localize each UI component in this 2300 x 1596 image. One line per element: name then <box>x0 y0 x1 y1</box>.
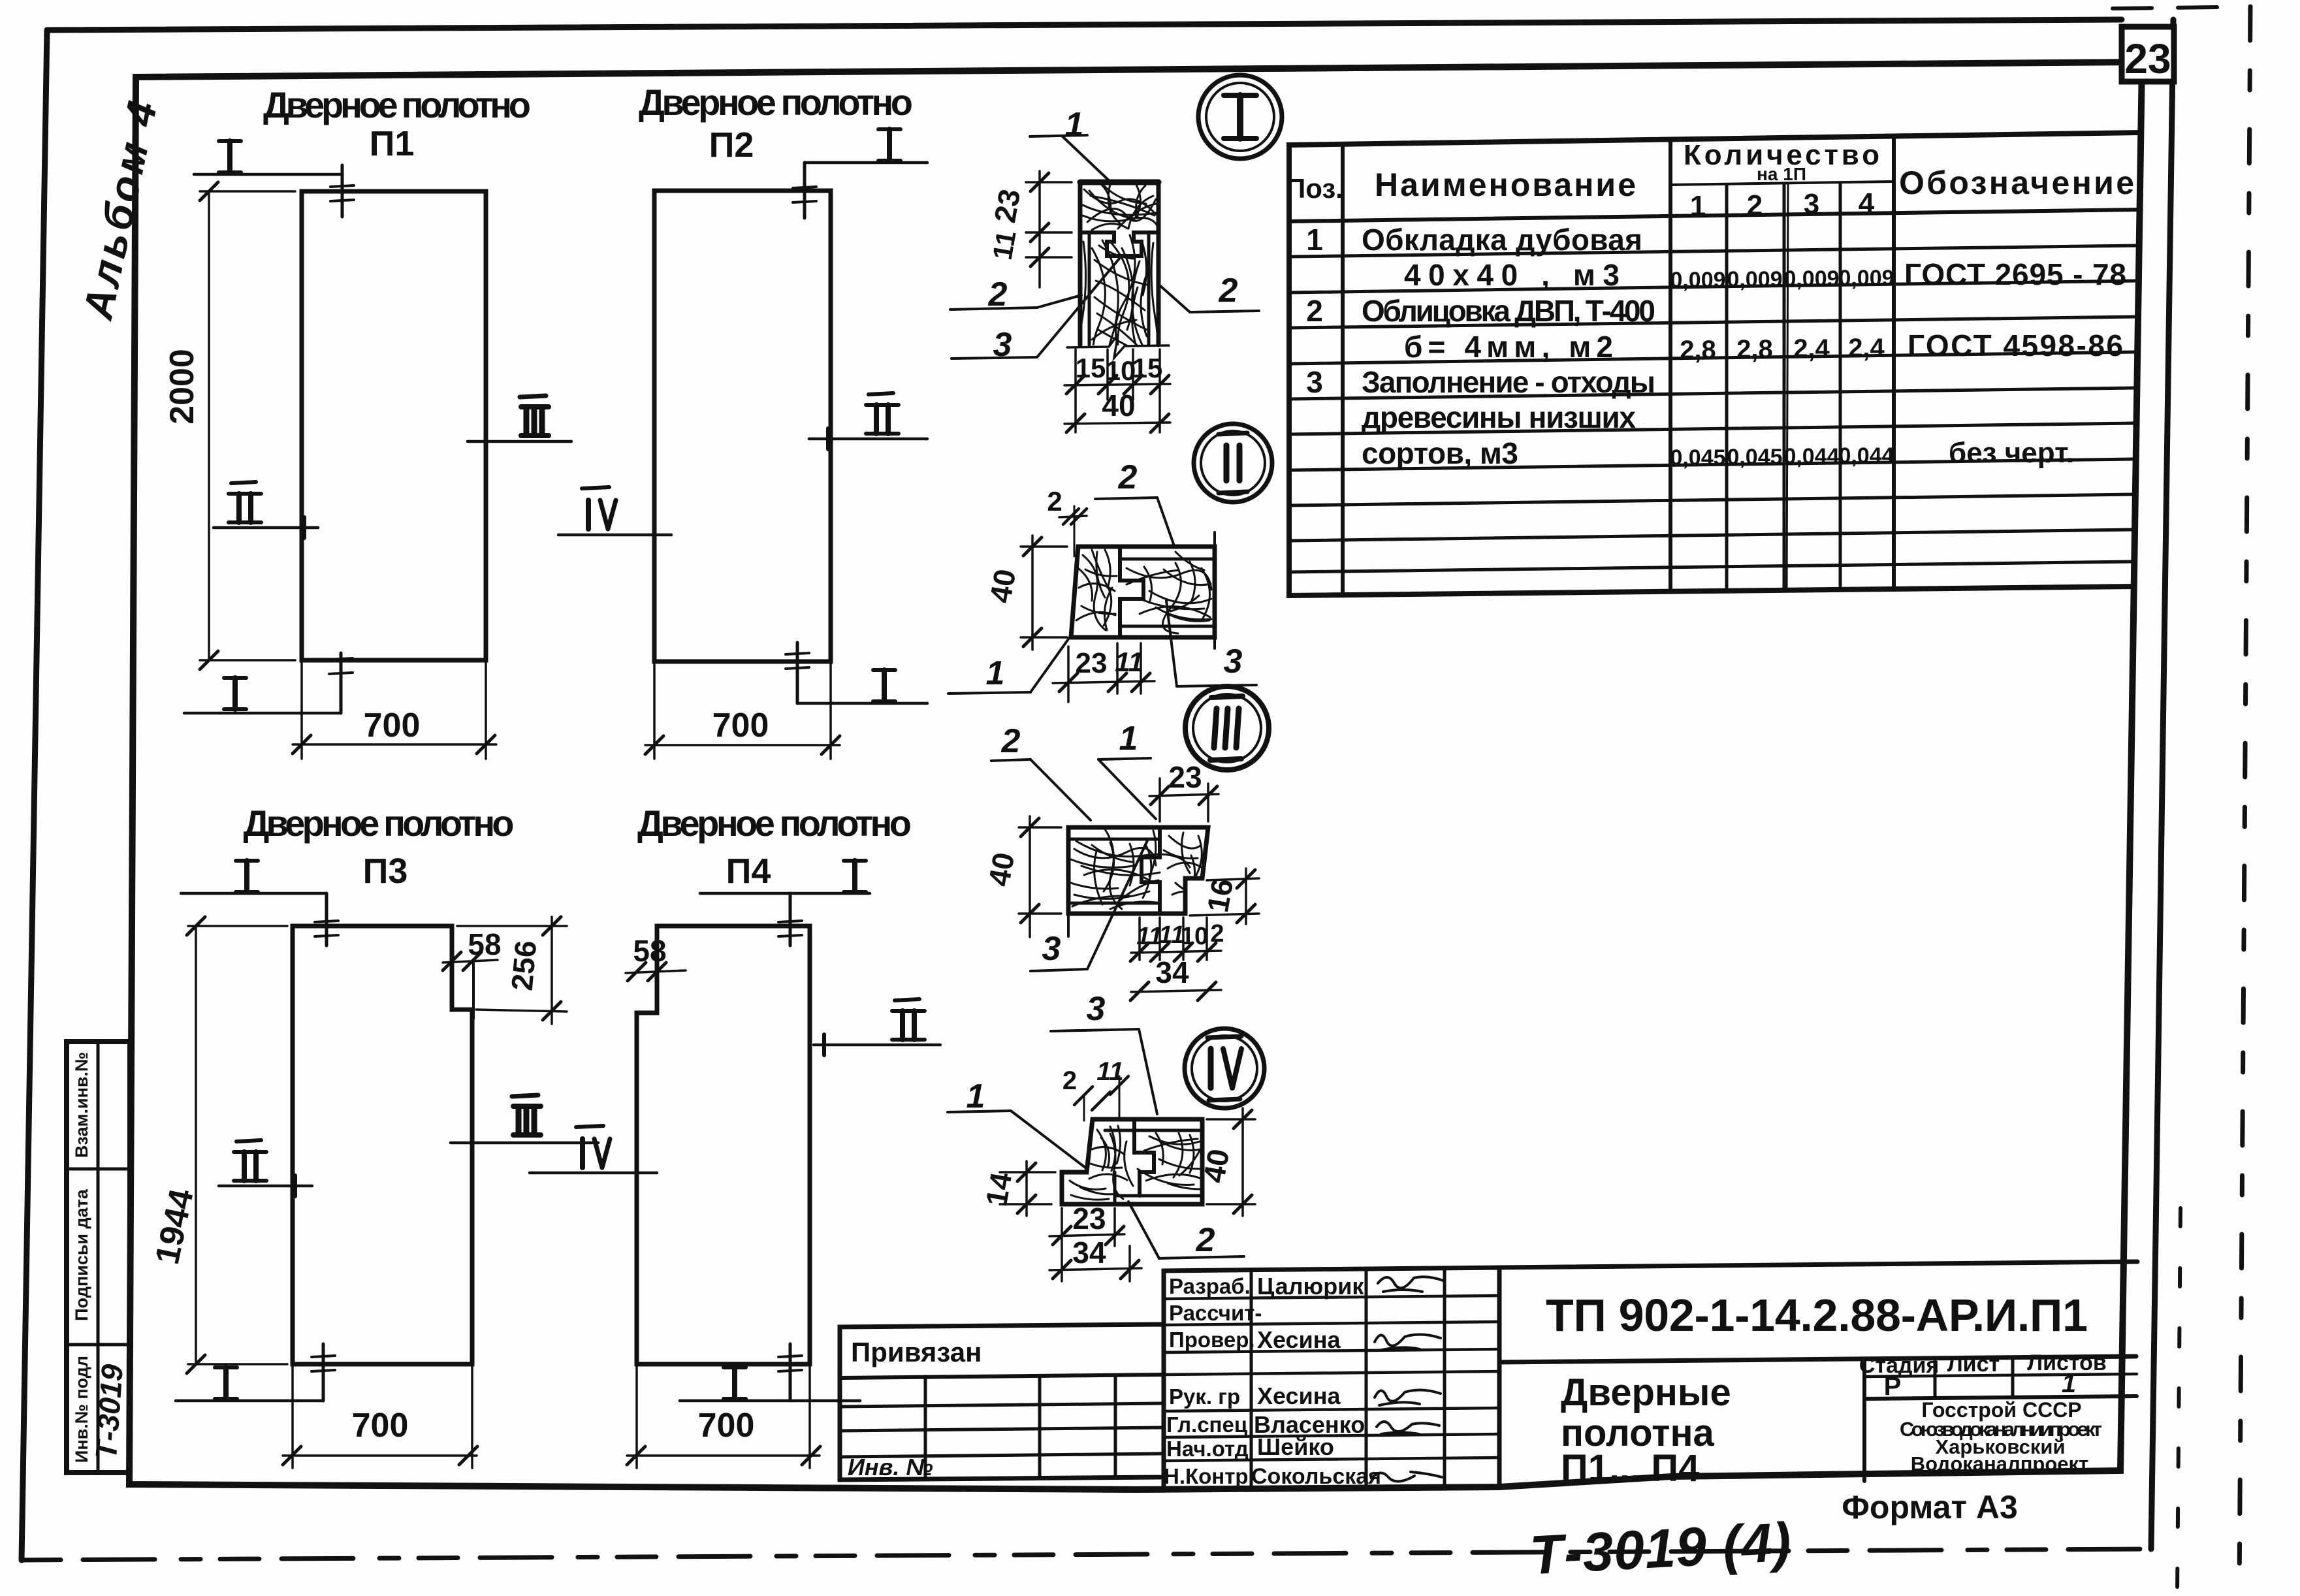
detail I bottom break line <box>1067 334 1169 358</box>
section I marker top P2 <box>805 161 927 165</box>
svg-text:Наименование: Наименование <box>1375 167 1636 203</box>
privyazan header line <box>840 1375 1164 1378</box>
svg-text:4: 4 <box>1859 187 1875 219</box>
fold dashes right lower <box>2177 1208 2180 1593</box>
svg-text:Шейко: Шейко <box>1257 1433 1334 1460</box>
dim 1944 <box>195 926 197 1364</box>
dim 700 P4 <box>635 1364 638 1468</box>
dim 700 P3 <box>291 1364 294 1468</box>
svg-text:0,009: 0,009 <box>1783 266 1839 291</box>
svg-text:Рук. гр: Рук. гр <box>1169 1384 1240 1409</box>
svg-text:Дверное полотно: Дверное полотно <box>244 803 515 844</box>
detail II facing strips <box>1120 558 1215 561</box>
section I marker bottom P1 <box>184 712 341 715</box>
svg-text:2: 2 <box>1306 294 1323 328</box>
left stamp divider vertical <box>97 1042 100 1473</box>
detail III left edge extension <box>1067 914 1070 936</box>
dim 2000 vertical line <box>208 191 210 660</box>
svg-text:40: 40 <box>982 850 1021 889</box>
svg-text:Подписьи дата: Подписьи дата <box>72 1189 91 1321</box>
signatures <box>1378 1277 1443 1292</box>
detail IV dim 14 left <box>1000 1171 1055 1173</box>
detail I wood grain lower filler <box>1079 235 1158 427</box>
detail I dims 15 10 15 40 bottom <box>1074 349 1077 432</box>
detail I wood grain top block <box>1083 184 1157 230</box>
door P2 rectangle <box>654 191 831 662</box>
svg-text:Разраб.: Разраб. <box>1169 1274 1251 1298</box>
svg-text:ГОСТ 2695 - 78: ГОСТ 2695 - 78 <box>1904 257 2126 291</box>
svg-text:Обозначение: Обозначение <box>1899 165 2134 201</box>
svg-text:16: 16 <box>1200 876 1239 915</box>
svg-text:Хесина: Хесина <box>1257 1382 1341 1409</box>
svg-text:1: 1 <box>966 1077 985 1115</box>
svg-text:1: 1 <box>2062 1369 2076 1398</box>
svg-text:Заполнение - отходы: Заполнение - отходы <box>1362 365 1655 399</box>
personnel block outer <box>1164 1268 1499 1490</box>
detail IV outline <box>1062 1119 1202 1204</box>
section II marker P3 <box>219 1185 312 1188</box>
svg-text:3: 3 <box>1224 643 1243 680</box>
svg-text:3: 3 <box>1042 930 1061 968</box>
detail III dim 40 left <box>1019 826 1061 829</box>
svg-text:700: 700 <box>698 1407 755 1444</box>
personnel rows <box>1164 1296 1499 1299</box>
svg-text:15: 15 <box>1132 353 1163 383</box>
svg-text:П1... П4: П1... П4 <box>1561 1447 1699 1490</box>
svg-text:Инв.№ подл: Инв.№ подл <box>72 1356 91 1463</box>
detail III oak profile <box>1142 827 1160 914</box>
subcol dividers 1-4 <box>1725 185 1729 591</box>
section II marker P2 <box>809 438 927 441</box>
section III marker P1 (bold) <box>468 440 571 443</box>
svg-text:23: 23 <box>2124 35 2171 82</box>
svg-text:Нач.отд: Нач.отд <box>1166 1437 1249 1461</box>
detail III outline <box>1068 827 1208 914</box>
detail I groove profile <box>1080 232 1158 256</box>
section I marker bottom P3 <box>176 1399 323 1403</box>
svg-text:0,009: 0,009 <box>1838 266 1894 291</box>
svg-text:0,045: 0,045 <box>1727 445 1782 470</box>
svg-text:10: 10 <box>1181 923 1208 950</box>
detail IV oak profile <box>1134 1119 1154 1196</box>
svg-text:Хесина: Хесина <box>1257 1326 1341 1353</box>
col Naimenovanie divider <box>1669 140 1672 592</box>
detail IV dims 23 34 bottom <box>1061 1208 1063 1281</box>
svg-text:П3: П3 <box>363 852 408 891</box>
svg-text:на 1П: на 1П <box>1757 164 1806 184</box>
svg-text:Дверные: Дверные <box>1561 1371 1731 1414</box>
top right dashes <box>2113 7 2220 8</box>
svg-text:Т-3019: Т-3019 <box>89 1363 129 1460</box>
privyazan table outer <box>840 1324 1164 1480</box>
dim 700 P1 <box>300 660 303 759</box>
svg-text:3: 3 <box>1087 990 1106 1028</box>
svg-text:23: 23 <box>1168 760 1202 794</box>
left stamp divider 2 <box>67 1343 130 1347</box>
svg-text:256: 256 <box>505 939 543 992</box>
svg-text:0,044: 0,044 <box>1838 443 1894 468</box>
svg-text:б= 4мм, м2: б= 4мм, м2 <box>1404 330 1613 364</box>
privyazan verticals <box>924 1377 927 1478</box>
detail III dim 16 right <box>1207 878 1259 880</box>
svg-text:2: 2 <box>1219 272 1238 310</box>
svg-text:23: 23 <box>1076 647 1108 679</box>
svg-text:40х40 , м3: 40х40 , м3 <box>1404 258 1620 292</box>
table outer <box>1289 133 2141 596</box>
col Poz divider <box>1341 144 1345 595</box>
dim 256 P3 notch <box>457 925 567 927</box>
svg-text:2,4: 2,4 <box>1793 334 1830 363</box>
svg-text:Лист: Лист <box>1947 1352 2000 1377</box>
svg-text:Поз.: Поз. <box>1286 173 1343 204</box>
stadia block <box>1862 1359 1866 1481</box>
svg-text:Сокольская: Сокольская <box>1251 1464 1381 1489</box>
svg-text:Обкладка дубовая: Обкладка дубовая <box>1362 223 1642 257</box>
section IV marker P3/P4 <box>530 1172 657 1175</box>
door P3 outline with notch <box>293 926 472 1364</box>
svg-text:40: 40 <box>1196 1147 1236 1185</box>
svg-text:23: 23 <box>1072 1202 1106 1236</box>
svg-text:700: 700 <box>352 1407 409 1444</box>
svg-text:700: 700 <box>712 707 769 744</box>
svg-text:Дверное полотно: Дверное полотно <box>263 84 531 125</box>
svg-text:1: 1 <box>1306 223 1323 257</box>
svg-text:П4: П4 <box>726 852 771 891</box>
svg-text:ГОСТ 4598-86: ГОСТ 4598-86 <box>1908 328 2123 362</box>
page number box <box>2122 27 2174 82</box>
svg-text:2: 2 <box>1210 920 1224 948</box>
svg-text:1: 1 <box>1065 106 1084 144</box>
detail II oak grain <box>1076 550 1117 630</box>
svg-text:Формат А3: Формат А3 <box>1842 1489 2018 1525</box>
door P1 rectangle <box>302 191 486 660</box>
svg-text:Дверное полотно: Дверное полотно <box>639 82 913 123</box>
document number cell <box>1499 1262 2137 1268</box>
svg-text:Н.Контр.: Н.Контр. <box>1164 1464 1254 1488</box>
detail II oak profile <box>1120 547 1143 637</box>
svg-text:2: 2 <box>1001 722 1021 760</box>
detail I dim 23/11 left <box>1026 181 1072 184</box>
svg-text:сортов, м3: сортов, м3 <box>1362 436 1518 470</box>
fold dashed line far right <box>2239 7 2250 1593</box>
circle label II <box>1194 424 1272 502</box>
svg-text:2: 2 <box>1047 486 1062 517</box>
detail II dim 40 <box>1021 545 1067 548</box>
detail III dim 34 <box>1131 990 1221 992</box>
svg-text:2: 2 <box>1196 1221 1215 1259</box>
svg-text:Облицовка ДВП, Т-400: Облицовка ДВП, Т-400 <box>1362 294 1655 328</box>
detail II outline <box>1071 547 1215 637</box>
svg-text:0,009: 0,009 <box>1670 268 1725 293</box>
svg-text:П1: П1 <box>370 124 415 163</box>
detail III facing strips <box>1068 838 1160 841</box>
svg-text:Привязан: Привязан <box>851 1337 982 1367</box>
detail IV oak grain <box>1089 1126 1127 1180</box>
svg-text:15: 15 <box>1076 353 1106 383</box>
svg-text:Цалюрик: Цалюрик <box>1257 1273 1364 1300</box>
svg-text:11: 11 <box>1115 646 1143 677</box>
svg-text:2: 2 <box>1747 189 1763 221</box>
svg-text:2: 2 <box>1062 1066 1077 1095</box>
svg-text:0,045: 0,045 <box>1670 445 1725 470</box>
svg-text:древесины низших: древесины низших <box>1362 400 1636 434</box>
detail III dim 23 top <box>1158 778 1161 822</box>
left stamp column box <box>67 1042 130 1473</box>
detail III filler grain <box>1071 842 1158 904</box>
section I marker bottom P2 <box>797 702 927 705</box>
outer border right <box>2151 20 2173 1549</box>
svg-text:3: 3 <box>1804 188 1819 220</box>
section I marker top P4 <box>700 892 870 895</box>
svg-text:без черт.: без черт. <box>1949 437 2074 469</box>
circle label III <box>1185 686 1269 770</box>
subheader line <box>1670 182 1894 185</box>
detail I grain outer strips <box>1079 242 1158 392</box>
row lines <box>1289 246 2139 257</box>
detail II dims 23 11 bottom <box>1067 646 1070 702</box>
svg-text:ТП 902-1-14.2.88-АР.И.П1: ТП 902-1-14.2.88-АР.И.П1 <box>1546 1290 2088 1341</box>
svg-text:Провер.: Провер. <box>1169 1328 1255 1352</box>
svg-text:Дверное полотно: Дверное полотно <box>637 803 912 844</box>
svg-text:40: 40 <box>1102 389 1135 423</box>
detail I top block <box>1080 180 1158 185</box>
svg-text:23: 23 <box>987 187 1027 225</box>
svg-text:58: 58 <box>633 934 666 968</box>
section I marker top P1 <box>194 173 342 176</box>
svg-text:2000: 2000 <box>163 349 201 424</box>
svg-text:Р: Р <box>1884 1372 1902 1401</box>
svg-text:Рассчит-: Рассчит- <box>1169 1301 1262 1325</box>
svg-text:10: 10 <box>1106 355 1136 386</box>
svg-text:Инв. №: Инв. № <box>848 1454 933 1480</box>
svg-text:1: 1 <box>986 654 1005 692</box>
detail I facing strips verticals <box>1088 232 1091 345</box>
detail IV facing strips <box>1105 1129 1202 1132</box>
section I marker bottom P4 <box>680 1399 860 1403</box>
detail IV ledge grain <box>1070 1181 1109 1200</box>
detail III dims 11 11 10 2 bottom <box>1138 918 1141 960</box>
section II marker P1 <box>214 526 318 530</box>
personnel verticals <box>1250 1270 1253 1489</box>
svg-text:14: 14 <box>979 1170 1018 1209</box>
svg-text:1: 1 <box>1119 720 1138 758</box>
col Kolichestvo right divider <box>1892 137 1896 589</box>
svg-text:0,044: 0,044 <box>1783 444 1839 469</box>
detail IV dim 40 right <box>1207 1118 1255 1121</box>
svg-text:2,4: 2,4 <box>1848 334 1885 362</box>
svg-text:Гл.спец: Гл.спец <box>1166 1412 1247 1437</box>
header bottom line <box>1289 210 2139 221</box>
svg-text:34: 34 <box>1072 1236 1106 1269</box>
circle label IV <box>1185 1029 1264 1108</box>
svg-text:58: 58 <box>468 927 501 961</box>
svg-text:34: 34 <box>1155 955 1189 989</box>
section I marker top P3 <box>181 892 327 895</box>
section II marker P4 <box>814 1044 940 1047</box>
svg-text:2: 2 <box>1118 458 1138 496</box>
outer border left <box>22 30 47 1560</box>
outer border top <box>47 20 2122 30</box>
svg-text:Водоканалпроект: Водоканалпроект <box>1911 1452 2088 1475</box>
section III marker P3 (bold) <box>451 1141 598 1145</box>
svg-text:0,009: 0,009 <box>1727 267 1782 292</box>
svg-text:П2: П2 <box>709 125 754 165</box>
door P4 outline with notch <box>637 926 810 1364</box>
svg-text:3: 3 <box>1306 365 1323 399</box>
svg-text:1: 1 <box>1690 190 1706 222</box>
svg-text:40: 40 <box>983 567 1022 605</box>
svg-text:11: 11 <box>987 229 1022 263</box>
svg-text:2,8: 2,8 <box>1736 335 1773 364</box>
svg-text:2,8: 2,8 <box>1680 336 1716 364</box>
detail II filler grain <box>1126 562 1211 633</box>
svg-text:Взам.инв.№: Взам.инв.№ <box>72 1052 91 1158</box>
privyazan row lines <box>840 1403 1164 1407</box>
dim 700 P2 <box>653 662 656 759</box>
detail III oak grain <box>1164 833 1204 898</box>
detail II right edge extension <box>1213 532 1216 648</box>
outer border bottom dashed <box>22 1549 2151 1560</box>
inner drawing frame <box>129 62 2142 1490</box>
circle label I <box>1198 75 1282 159</box>
left stamp divider 1 <box>67 1168 130 1171</box>
section IV marker P2 <box>558 534 671 537</box>
svg-text:700: 700 <box>364 707 421 744</box>
detail IV filler grain <box>1080 1133 1230 1199</box>
